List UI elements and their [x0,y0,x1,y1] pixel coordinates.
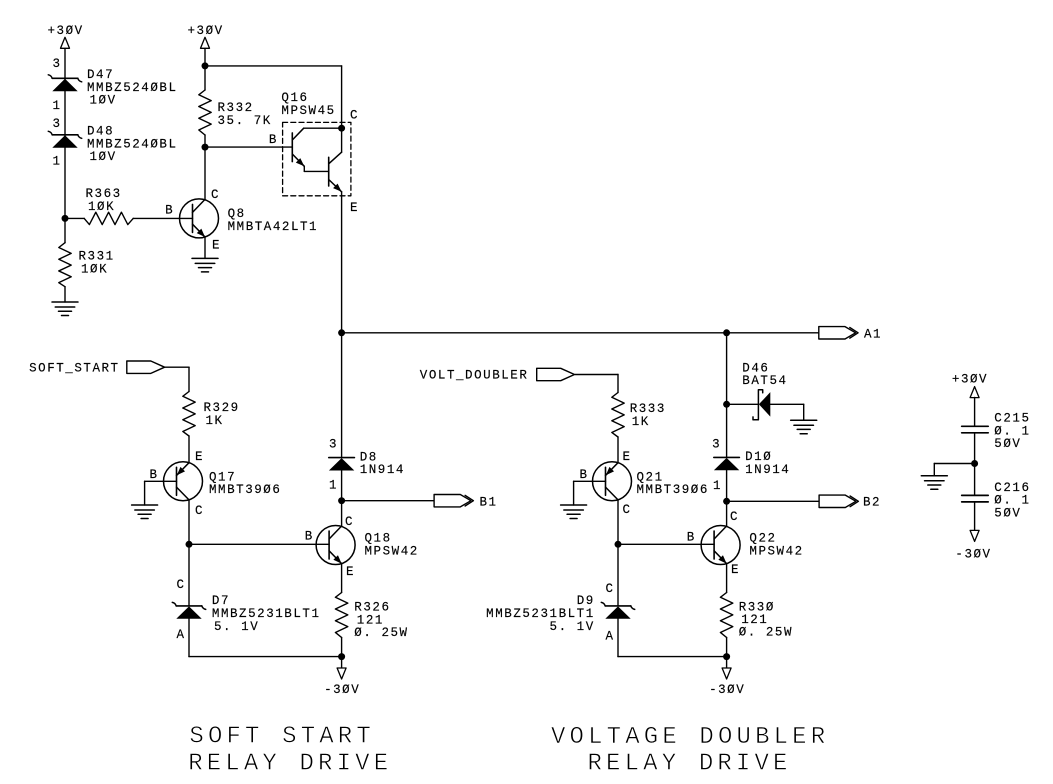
svg-text:A1: A1 [864,328,882,342]
svg-text:C: C [730,510,739,524]
svg-text:+3ØV: +3ØV [47,24,83,38]
svg-text:A: A [605,630,614,644]
svg-text:1: 1 [713,479,722,493]
svg-text:35. 7K: 35. 7K [218,114,272,128]
svg-text:3: 3 [329,437,338,451]
svg-text:E: E [195,450,204,464]
svg-text:B: B [687,531,696,545]
svg-text:1ØV: 1ØV [90,150,117,164]
svg-text:1K: 1K [632,415,650,429]
svg-text:1ØV: 1ØV [90,94,117,108]
svg-text:+3ØV: +3ØV [952,373,988,387]
svg-text:3: 3 [712,438,721,452]
svg-text:SOFT_START: SOFT_START [29,362,120,376]
svg-text:MPSW45: MPSW45 [281,104,335,118]
svg-text:3: 3 [52,117,61,131]
svg-text:C: C [345,515,354,529]
svg-text:B1: B1 [480,496,498,510]
svg-text:MMBTA42LT1: MMBTA42LT1 [228,220,319,234]
svg-text:+3ØV: +3ØV [187,24,223,38]
svg-text:B: B [579,468,588,482]
svg-text:MMBT39Ø6: MMBT39Ø6 [637,483,709,497]
svg-text:-3ØV: -3ØV [955,548,991,562]
svg-text:1ØK: 1ØK [81,262,108,276]
svg-text:B: B [305,530,314,544]
svg-text:C: C [605,582,614,596]
svg-text:E: E [346,565,355,579]
svg-text:C: C [176,578,185,592]
svg-text:RELAY DRIVE: RELAY DRIVE [588,750,792,777]
svg-text:VOLT_DOUBLER: VOLT_DOUBLER [420,369,529,383]
svg-text:1ØK: 1ØK [88,200,115,214]
svg-text:MMBT39Ø6: MMBT39Ø6 [209,483,281,497]
svg-text:Ø. 25W: Ø. 25W [354,626,408,640]
svg-text:1: 1 [52,154,61,168]
svg-text:SOFT START: SOFT START [189,724,375,751]
svg-text:B: B [269,133,278,147]
svg-text:-3ØV: -3ØV [709,683,745,697]
svg-text:5ØV: 5ØV [994,507,1021,521]
svg-text:C: C [195,504,204,518]
svg-text:E: E [623,450,632,464]
svg-text:RELAY DRIVE: RELAY DRIVE [188,750,392,777]
svg-text:C: C [350,108,359,122]
svg-text:B2: B2 [863,496,881,510]
svg-text:5. 1V: 5. 1V [550,620,595,634]
svg-text:C: C [623,503,632,517]
svg-text:1K: 1K [206,414,224,428]
svg-text:E: E [731,563,740,577]
svg-text:3: 3 [52,57,61,71]
svg-text:1N914: 1N914 [360,463,405,477]
svg-text:-3ØV: -3ØV [324,683,360,697]
svg-text:1: 1 [329,478,338,492]
svg-text:5ØV: 5ØV [994,437,1021,451]
svg-text:5. 1V: 5. 1V [214,620,259,634]
svg-text:B: B [165,203,174,217]
svg-text:E: E [350,201,359,215]
svg-text:MPSW42: MPSW42 [365,544,419,558]
svg-text:1N914: 1N914 [745,463,790,477]
svg-text:VOLTAGE DOUBLER: VOLTAGE DOUBLER [551,724,829,751]
svg-text:1: 1 [52,99,61,113]
svg-text:MPSW42: MPSW42 [749,544,803,558]
svg-text:BAT54: BAT54 [742,374,787,388]
svg-text:A: A [176,628,185,642]
svg-text:E: E [212,239,221,253]
svg-text:Ø. 25W: Ø. 25W [739,626,793,640]
svg-text:B: B [149,468,158,482]
svg-text:C: C [211,188,220,202]
